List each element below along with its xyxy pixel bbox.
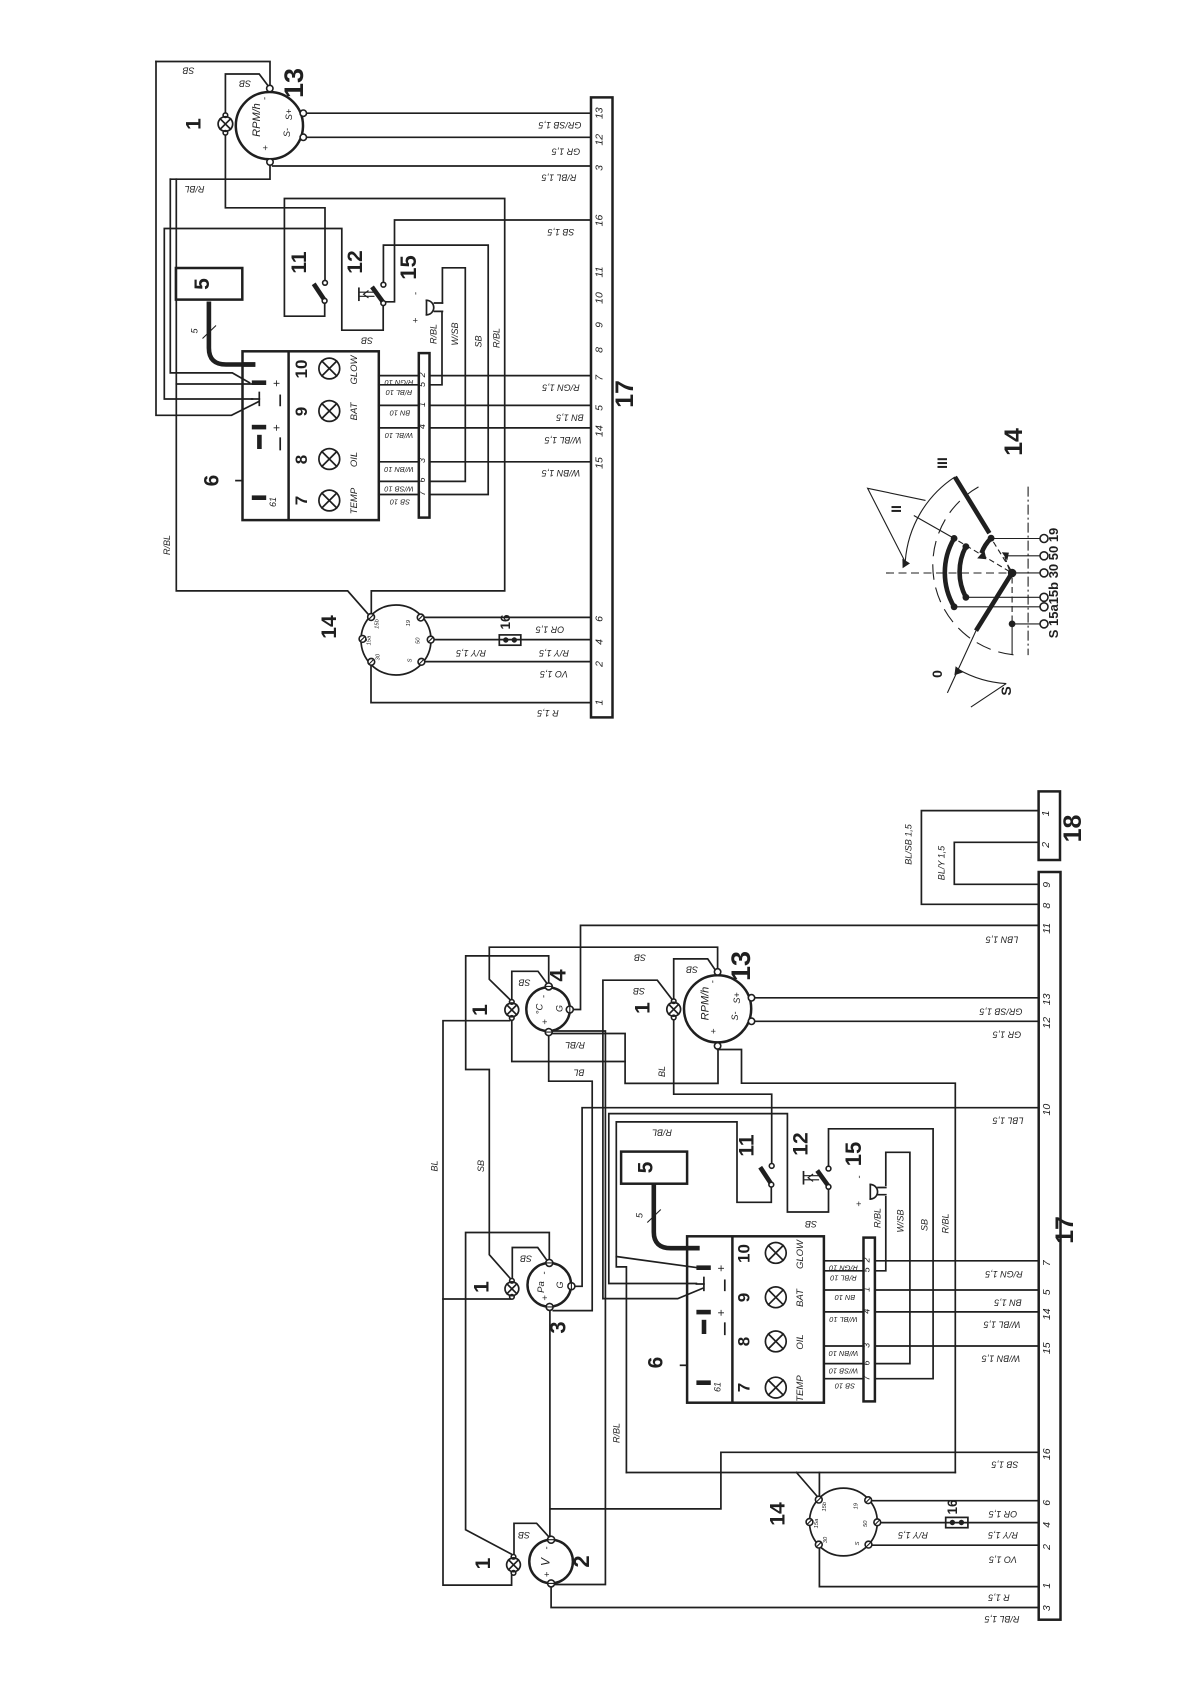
- svg-text:-: -: [854, 1175, 865, 1178]
- lamp 1 at voltmeter: [507, 1555, 521, 1576]
- svg-text:OR 1,5: OR 1,5: [535, 625, 565, 635]
- svg-text:BN 1,5: BN 1,5: [993, 1298, 1022, 1308]
- svg-text:6: 6: [200, 475, 223, 487]
- svg-text:9: 9: [1041, 882, 1053, 888]
- wire BL lamp 4 bottom junction: [512, 1020, 625, 1061]
- wire battery plus feed (wire 1): [170, 179, 249, 383]
- wire R/BL key link horizontal: [626, 1472, 955, 1474]
- svg-text:GR 1,5: GR 1,5: [992, 1030, 1022, 1040]
- lamp GLOW 10 (top): [319, 358, 340, 379]
- svg-text:1: 1: [471, 1281, 494, 1293]
- svg-text:1: 1: [593, 700, 605, 706]
- svg-text:10: 10: [593, 292, 605, 304]
- svg-text:16: 16: [593, 215, 605, 227]
- wire SB tach to lamp diagonal: [674, 959, 716, 999]
- wire SB chain gauge 3 top to voltmeter lamp: [466, 1233, 550, 1555]
- detail terminal 50: [1040, 552, 1048, 560]
- wire BL lamp 13 bottom to switch 11: [674, 1020, 772, 1163]
- svg-text:SB: SB: [633, 986, 645, 996]
- key switch 14 (top): [359, 605, 434, 675]
- svg-text:W/SB 10: W/SB 10: [828, 1367, 858, 1376]
- svg-text:SB: SB: [520, 1254, 532, 1264]
- svg-text:14: 14: [1000, 428, 1028, 456]
- wire box 6 to strip rows (bottom): [824, 1261, 864, 1379]
- pressure gauge 3 (bottom): [528, 1259, 575, 1310]
- svg-text:°C: °C: [535, 1004, 546, 1015]
- svg-text:BN 1,5: BN 1,5: [555, 413, 584, 423]
- svg-text:13: 13: [1041, 993, 1053, 1005]
- cable stub into box 6 (bottom): [687, 1246, 700, 1251]
- wire buzzer stubs: [435, 303, 443, 311]
- svg-text:30: 30: [823, 1536, 829, 1543]
- tachometer 13 (bottom): [684, 969, 755, 1049]
- svg-text:SB: SB: [474, 335, 484, 347]
- detail III ray thick: [955, 477, 990, 533]
- svg-text:19: 19: [854, 1502, 860, 1509]
- svg-text:1: 1: [632, 1002, 655, 1014]
- detail axis dash-dot: [1027, 487, 1029, 655]
- svg-text:R 1,5: R 1,5: [987, 1593, 1010, 1603]
- svg-text:12: 12: [593, 134, 605, 146]
- svg-text:2: 2: [1041, 1544, 1053, 1551]
- wire strip pin 2 to bar pin 7 (R/GN): [430, 375, 592, 377]
- svg-text:BL: BL: [573, 1068, 584, 1078]
- buzzer 15 (top): [411, 292, 434, 323]
- detail terminal 19: [1040, 535, 1048, 543]
- svg-text:Pa: Pa: [536, 1281, 547, 1293]
- svg-text:SB: SB: [182, 66, 194, 76]
- svg-text:5: 5: [1041, 1289, 1053, 1295]
- wire SB gauge wire B to battery plate: [603, 980, 703, 1298]
- detail dashed neutral line: [886, 572, 1008, 574]
- svg-text:R 1,5: R 1,5: [536, 708, 559, 718]
- wire gauge 3 top to Pa lamp link: [512, 1248, 547, 1279]
- svg-text:RPM/h: RPM/h: [251, 103, 263, 137]
- battery plus plate 1 (bottom): [696, 1265, 710, 1270]
- wire R/BL vertical to key switch 15b: [176, 179, 368, 615]
- svg-text:R/BL: R/BL: [652, 1128, 672, 1138]
- svg-text:G: G: [555, 1005, 565, 1012]
- svg-text:G: G: [555, 1281, 565, 1288]
- svg-text:TEMP: TEMP: [349, 487, 360, 514]
- svg-text:SB: SB: [518, 1530, 530, 1540]
- svg-text:BL/Y 1,5: BL/Y 1,5: [937, 845, 947, 880]
- svg-text:+: +: [270, 380, 284, 387]
- connector bar 17 (top): [591, 97, 613, 717]
- switch 11 (top): [314, 280, 328, 303]
- svg-text:BN 10: BN 10: [834, 1293, 855, 1302]
- svg-text:BAT: BAT: [795, 1288, 806, 1307]
- svg-text:11: 11: [736, 1134, 759, 1157]
- lamp BAT 9 (top): [319, 401, 340, 422]
- svg-text:R/BL: R/BL: [184, 184, 204, 194]
- svg-text:6: 6: [1041, 1500, 1053, 1506]
- lamp TEMP 7 (top): [319, 490, 340, 511]
- svg-text:BAT: BAT: [349, 401, 360, 420]
- detail S leg: [1011, 578, 1013, 621]
- wire SB voltmeter lamp link: [514, 1523, 549, 1554]
- wire strip pin 4 to bar pin 14 (W/BL): [430, 427, 592, 429]
- wire SB switch 12 loop to battery plate: [609, 1114, 829, 1284]
- svg-text:9: 9: [593, 322, 605, 328]
- lamp BAT 9 (bottom): [765, 1287, 786, 1308]
- svg-text:SB: SB: [686, 965, 698, 975]
- detail terminal 15b: [1040, 593, 1048, 601]
- svg-text:II: II: [888, 505, 904, 513]
- wire battery plus horizontal feed: [176, 383, 252, 385]
- svg-text:12: 12: [344, 250, 367, 273]
- wire SB bus top (lamp feed): [156, 62, 270, 86]
- svg-text:VO 1,5: VO 1,5: [539, 669, 568, 679]
- detail III contact short arc with arrow: [982, 538, 992, 553]
- svg-text:16: 16: [1041, 1448, 1053, 1460]
- svg-text:18: 18: [1059, 815, 1087, 843]
- svg-text:50: 50: [416, 637, 422, 644]
- svg-text:+: +: [709, 1028, 720, 1034]
- svg-text:R/Y 1,5: R/Y 1,5: [538, 648, 569, 658]
- svg-text:+: +: [261, 145, 272, 151]
- cable 5-core from box 5: [209, 302, 255, 365]
- terminal strip (bottom): [864, 1238, 875, 1402]
- detail terminal S: [1040, 620, 1048, 628]
- svg-text:R/BL: R/BL: [162, 535, 172, 555]
- svg-text:W/BN 10: W/BN 10: [383, 465, 413, 474]
- wire SB bus tach top: [489, 947, 717, 1000]
- svg-text:10: 10: [292, 360, 311, 379]
- svg-text:4: 4: [862, 1309, 872, 1314]
- svg-text:19: 19: [406, 619, 412, 626]
- svg-text:R/BL 1,5: R/BL 1,5: [541, 173, 577, 183]
- svg-text:OIL: OIL: [795, 1334, 806, 1349]
- wire R/BL switch 11 loop: [616, 1122, 771, 1473]
- wire gauge 3 bottom to voltmeter top: [549, 1310, 551, 1535]
- wire W/SB buzzer box to strip pin 6: [875, 1152, 910, 1363]
- svg-text:W/BL 1,5: W/BL 1,5: [544, 435, 582, 445]
- svg-text:S: S: [855, 1541, 861, 1545]
- wire SB left vertical to battery minus plate (wire B): [156, 62, 258, 416]
- svg-text:SB: SB: [361, 336, 373, 346]
- detail II ray: [914, 516, 954, 539]
- svg-text:TEMP: TEMP: [795, 1375, 806, 1402]
- svg-text:SB 1,5: SB 1,5: [547, 227, 575, 237]
- wire key 30 to bar pin 1: [819, 1549, 1038, 1587]
- svg-text:SB 10: SB 10: [834, 1382, 855, 1391]
- wire branch to key switch 15b vertical: [284, 199, 504, 614]
- control box 6 (top): [243, 351, 379, 520]
- svg-text:+: +: [714, 1265, 728, 1272]
- svg-text:2: 2: [1040, 842, 1052, 849]
- cable slash mark 5: [203, 326, 217, 339]
- connector bar 17 (bottom): [1039, 872, 1061, 1620]
- svg-text:LBL 1,5: LBL 1,5: [992, 1116, 1024, 1126]
- battery minus plate 2 (bottom): [702, 1320, 707, 1334]
- svg-text:5: 5: [593, 405, 605, 411]
- svg-text:W/BN 1,5: W/BN 1,5: [541, 468, 581, 478]
- svg-text:+: +: [540, 1019, 551, 1025]
- svg-text:8: 8: [735, 1337, 754, 1346]
- svg-text:RPM/h: RPM/h: [700, 987, 712, 1021]
- svg-text:2: 2: [862, 1257, 872, 1263]
- svg-text:5: 5: [635, 1161, 658, 1173]
- wire LBL sender Pa to bar pin 10: [575, 1108, 1039, 1287]
- wire GR tach S- to pin 12: [755, 1020, 1039, 1022]
- wire R/BL tach plus to key feed vertical: [718, 1050, 956, 1473]
- wire tach S+ to pin 13 (GR/SB 15): [306, 112, 591, 114]
- wire SB switch 12 top to strip pin 7: [383, 245, 488, 494]
- lamp GLOW 10 (bottom): [765, 1243, 786, 1264]
- svg-text:GR/SB 1,5: GR/SB 1,5: [538, 120, 582, 130]
- svg-text:6: 6: [593, 616, 605, 622]
- switch 11 (bottom): [760, 1164, 774, 1188]
- switch 12 start button (bottom): [804, 1166, 831, 1189]
- svg-text:1: 1: [472, 1557, 495, 1569]
- wire key 30 to bar pin 1 (R 15): [371, 665, 591, 703]
- svg-text:-: -: [411, 292, 422, 295]
- svg-text:S+: S+: [732, 992, 742, 1003]
- switch 12 start button (top): [359, 282, 386, 305]
- svg-text:1: 1: [1041, 1583, 1053, 1589]
- fuse 16 (bottom): [946, 1517, 968, 1527]
- svg-text:+: +: [411, 317, 422, 323]
- wire R/BL gauge 4 plus to tach plus: [552, 1034, 718, 1084]
- wire diagonal to key 15b: [797, 1473, 820, 1497]
- svg-text:6: 6: [862, 1360, 872, 1365]
- detail S lever: [976, 575, 1011, 631]
- svg-text:+: +: [542, 1571, 553, 1577]
- lamp OIL 8 (top): [319, 449, 340, 470]
- svg-text:12: 12: [790, 1132, 813, 1155]
- lamp TEMP 7 (bottom): [765, 1377, 786, 1398]
- wire SB switch 12 top to strip pin 7: [829, 1129, 934, 1379]
- svg-text:V: V: [539, 1557, 553, 1566]
- svg-text:R/GN 10: R/GN 10: [384, 378, 414, 387]
- svg-text:14: 14: [1041, 1308, 1053, 1320]
- fuse 16 (top): [499, 635, 521, 645]
- detail dashed ray to II position: [954, 538, 1009, 571]
- svg-text:S-: S-: [282, 128, 292, 137]
- battery minus plate 1 (bottom): [703, 1278, 705, 1291]
- svg-text:9: 9: [292, 407, 311, 416]
- svg-text:8: 8: [593, 347, 605, 353]
- detail pivot: [1008, 569, 1017, 578]
- wire key 50 to bar pin 4 via fuse 16 (R/Y 15): [433, 639, 591, 641]
- wire R/BL tach plus down-left: [170, 165, 270, 179]
- svg-text:W/BN 10: W/BN 10: [828, 1349, 858, 1358]
- wire key 19 to bar pin 6 (OR 15): [424, 616, 591, 618]
- svg-text:R/BL 10: R/BL 10: [829, 1273, 856, 1282]
- svg-text:15a: 15a: [367, 635, 373, 645]
- lamp 1 at gauge 4: [505, 1000, 519, 1021]
- svg-text:2: 2: [417, 372, 427, 378]
- svg-text:1: 1: [469, 1004, 492, 1016]
- terminal 61 plate (bottom): [696, 1380, 710, 1385]
- svg-text:0: 0: [929, 670, 945, 678]
- wire BL/Y jumper pin 2 to pin 9: [954, 842, 1038, 884]
- svg-text:W/BN 1,5: W/BN 1,5: [981, 1354, 1021, 1364]
- key switch 14 (bottom): [806, 1488, 881, 1556]
- svg-text:SB: SB: [518, 978, 530, 988]
- svg-text:R/BL: R/BL: [873, 1208, 883, 1228]
- svg-text:-: -: [539, 1271, 550, 1274]
- svg-text:16: 16: [945, 1499, 960, 1515]
- svg-text:8: 8: [292, 455, 311, 464]
- svg-text:5: 5: [191, 278, 214, 290]
- box 5 (top): [176, 268, 242, 300]
- wire SB voltmeter top to bar pin 16: [550, 1452, 1038, 1509]
- svg-text:2: 2: [569, 1555, 594, 1567]
- svg-text:13: 13: [279, 68, 309, 98]
- lamp OIL 8 (bottom): [765, 1331, 786, 1352]
- svg-text:17: 17: [611, 380, 639, 408]
- svg-text:-: -: [539, 995, 550, 998]
- detail big solid range arc with arrow: [905, 477, 955, 561]
- svg-text:S 15a15b 30 50 19: S 15a15b 30 50 19: [1046, 528, 1061, 639]
- svg-text:3: 3: [546, 1321, 571, 1333]
- wire plus chain gauge4 to gauge3 bottom: [549, 1036, 593, 1311]
- control box 6 (bottom): [687, 1236, 824, 1402]
- svg-text:GLOW: GLOW: [795, 1239, 806, 1269]
- svg-text:8: 8: [1041, 903, 1053, 909]
- svg-text:4: 4: [546, 969, 571, 982]
- svg-text:3: 3: [862, 1343, 872, 1348]
- buzzer 15 (bottom): [854, 1175, 878, 1206]
- svg-text:15b: 15b: [375, 618, 381, 628]
- svg-text:SB: SB: [920, 1219, 930, 1231]
- svg-text:1: 1: [1040, 810, 1052, 816]
- wire SB chain gauge 4 top / to Pa lamp: [466, 956, 549, 1279]
- svg-text:GR/SB 1,5: GR/SB 1,5: [979, 1007, 1023, 1017]
- svg-text:R/GN 10: R/GN 10: [828, 1263, 858, 1272]
- svg-text:R/Y 1,5: R/Y 1,5: [897, 1530, 928, 1540]
- detail terminal 30: [1040, 569, 1048, 577]
- detail dashed ray to III contact: [991, 538, 1010, 569]
- wire BL branch to Pa lamp bottom: [443, 1298, 510, 1300]
- detail contact arc inner: [960, 547, 966, 598]
- svg-text:-: -: [260, 97, 271, 100]
- svg-text:SB 10: SB 10: [389, 498, 410, 507]
- svg-text:S-: S-: [730, 1011, 740, 1020]
- svg-text:14: 14: [318, 615, 341, 639]
- svg-text:BL: BL: [430, 1160, 440, 1171]
- svg-text:SB: SB: [239, 79, 251, 89]
- svg-text:GR 1,5: GR 1,5: [551, 147, 581, 157]
- svg-text:-: -: [542, 1546, 553, 1549]
- wire R/BL buzzer to strip pin 5: [430, 311, 443, 384]
- svg-text:7: 7: [735, 1383, 754, 1392]
- svg-text:BL: BL: [657, 1066, 667, 1077]
- svg-text:R/BL 10: R/BL 10: [385, 388, 412, 397]
- svg-text:17: 17: [1051, 1216, 1079, 1244]
- svg-text:III: III: [934, 457, 950, 469]
- wire BL/SB jumper pin 1 to pin 8: [921, 811, 1038, 905]
- svg-text:OIL: OIL: [349, 452, 360, 467]
- svg-text:R/BL: R/BL: [612, 1423, 622, 1443]
- svg-text:14: 14: [593, 425, 605, 437]
- wire tach plus to connector pin 3 (R/BL 15): [273, 165, 591, 167]
- svg-text:S+: S+: [284, 109, 294, 120]
- svg-text:1: 1: [183, 118, 206, 130]
- detail dashed ray to 50 arrow: [1005, 556, 1010, 571]
- svg-text:1: 1: [417, 402, 427, 407]
- connector 18 (bottom): [1039, 791, 1060, 860]
- wire R/BL buzzer to strip pin 5: [875, 1197, 886, 1271]
- svg-text:BN 10: BN 10: [389, 408, 410, 417]
- battery plus plate 2 (bottom): [696, 1310, 710, 1315]
- wire buzzer stubs (bottom): [878, 1188, 886, 1195]
- svg-text:W/BL 10: W/BL 10: [384, 431, 413, 440]
- wire BL lamp bottoms chain left: [443, 1021, 512, 1585]
- svg-text:+: +: [854, 1201, 865, 1207]
- svg-text:10: 10: [735, 1244, 754, 1263]
- wire R/BL voltmeter bottom to bar pin 3: [551, 1587, 1039, 1607]
- detail contact arc outer: [945, 538, 954, 606]
- terminal strip (top): [419, 353, 430, 517]
- svg-text:R/BL: R/BL: [429, 324, 439, 344]
- tachometer 13 (top): [236, 85, 307, 165]
- svg-text:61: 61: [712, 1382, 722, 1392]
- wire GR/SB tach S+ to pin 13: [755, 997, 1039, 999]
- svg-text:15: 15: [593, 457, 605, 469]
- battery minus plate 2: [257, 435, 262, 449]
- wire key S to bar pin 2 (VO 15): [425, 661, 591, 663]
- wire SB lamp 1 to tach minus: [225, 74, 268, 113]
- detail return arc 0 to S: [959, 670, 1007, 684]
- svg-text:13: 13: [726, 951, 756, 981]
- svg-text:VO 1,5: VO 1,5: [988, 1555, 1017, 1565]
- wire key S to bar pin 2: [872, 1544, 1038, 1546]
- detail terminal 15a: [1040, 603, 1048, 611]
- svg-text:R/BL: R/BL: [492, 328, 502, 348]
- svg-text:+: +: [540, 1295, 551, 1301]
- wire strip pin 3 to bar pin 15 (W/BN): [430, 461, 592, 463]
- svg-text:R/Y 1,5: R/Y 1,5: [455, 648, 486, 658]
- svg-text:W/SB 10: W/SB 10: [384, 484, 414, 493]
- wire plus chain gauge4 to voltmeter bottom: [552, 1031, 605, 1585]
- svg-text:30: 30: [375, 653, 381, 660]
- svg-text:R/GN 1,5: R/GN 1,5: [541, 383, 580, 393]
- svg-text:2: 2: [593, 661, 605, 668]
- svg-text:12: 12: [1041, 1017, 1053, 1029]
- box 5 (bottom): [621, 1152, 687, 1184]
- wire SB 15 to pin 16 and switch 12 bottom: [386, 220, 591, 302]
- svg-text:SB 1,5: SB 1,5: [991, 1460, 1019, 1470]
- svg-text:SB: SB: [805, 1219, 817, 1229]
- wire R/BL feed to battery plus diagonal: [616, 1257, 696, 1268]
- svg-text:3: 3: [417, 458, 427, 463]
- svg-text:1: 1: [862, 1287, 872, 1292]
- svg-text:SB: SB: [476, 1160, 486, 1172]
- svg-text:10: 10: [1041, 1104, 1053, 1116]
- temp gauge 4 (bottom): [526, 983, 573, 1036]
- wire W/SB buzzer box to strip pin 6: [430, 268, 466, 482]
- cable slash mark 5 (bottom): [647, 1210, 661, 1223]
- svg-text:4: 4: [417, 424, 427, 429]
- detail key wedge pointer: [868, 488, 926, 560]
- svg-text:+: +: [714, 1309, 728, 1316]
- battery plus plate 1: [252, 380, 266, 385]
- svg-text:R/Y 1,5: R/Y 1,5: [987, 1530, 1018, 1540]
- svg-text:15: 15: [1041, 1342, 1053, 1354]
- svg-text:W/SB: W/SB: [450, 322, 460, 345]
- svg-text:7: 7: [292, 496, 311, 505]
- wire box 6 to strip rows: [379, 376, 419, 495]
- svg-text:W/SB: W/SB: [896, 1209, 906, 1232]
- wire bus to battery plate / switch 12 loop (SB): [164, 229, 383, 400]
- wire strip to bar rows (bottom): [875, 1261, 1039, 1346]
- svg-text:15: 15: [396, 255, 421, 279]
- lamp 1 at tach (bottom): [667, 999, 681, 1020]
- svg-text:50: 50: [863, 1520, 869, 1527]
